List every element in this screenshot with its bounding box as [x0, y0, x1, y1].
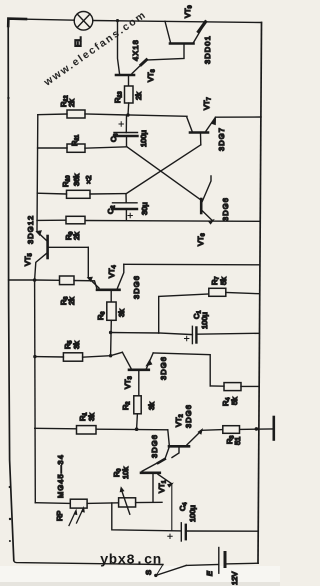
wire R12 left to bus [38, 113, 67, 116]
wire R13 to node [127, 103, 130, 115]
wire switch to battery [186, 564, 219, 567]
transistor VT4 [87, 247, 124, 302]
resistor R11 [67, 144, 85, 152]
resistor R6 [107, 302, 116, 320]
wire: top rail left segment to lamp [8, 19, 74, 20]
resistor R2 [134, 396, 141, 414]
transistor VT6 [201, 176, 214, 224]
svg-text:3DG6: 3DG6 [159, 356, 168, 380]
resistor R12 [67, 110, 85, 118]
node R6/C1 wire [109, 331, 112, 334]
node top rail junction [116, 19, 119, 22]
photoresistor RP [70, 499, 87, 508]
edge artifact marks [7, 97, 11, 542]
wire R4 leads [210, 385, 258, 388]
svg-text:5k: 5k [230, 397, 239, 405]
resistor R4 [224, 383, 241, 391]
wire collector rail y264 [124, 263, 259, 266]
transistor VT8 [116, 21, 147, 87]
transistor VT9 [146, 21, 206, 60]
wire down to C4 rail [112, 503, 182, 531]
ground bar [272, 417, 275, 440]
svg-text:EL: EL [73, 36, 83, 47]
wire R8 to VT4 [74, 281, 97, 290]
svg-text:51: 51 [233, 437, 242, 445]
transistor VT7 [187, 117, 216, 145]
wire R5 to VT3 [83, 352, 123, 357]
wire R2 bottom [136, 414, 139, 429]
node R2 rail junction [135, 427, 139, 431]
wire node to VT7 collector [128, 115, 187, 116]
svg-text:3DG6: 3DG6 [184, 404, 193, 428]
svg-text:100μ: 100μ [200, 312, 209, 329]
resistor R5 [63, 353, 82, 361]
node rail/frame junction [255, 427, 259, 431]
node R6 lead junction [109, 354, 112, 357]
wire cross-coupling diag1 [127, 147, 202, 201]
svg-text:S: S [144, 570, 153, 575]
svg-text:100μ: 100μ [139, 130, 148, 147]
wire R11 leads [38, 147, 127, 148]
wire: right frame rail [258, 23, 262, 564]
potentiometer R0 [119, 498, 136, 507]
wire R0 right [136, 501, 162, 503]
svg-text:3k: 3k [72, 341, 81, 349]
frame corner blob [8, 19, 26, 26]
wire VT3 emitter to R4 riser [153, 353, 210, 386]
transistor VT1 [141, 447, 173, 503]
wire R7 riser [159, 294, 209, 333]
capacitor C4 [168, 523, 258, 541]
svg-text:3DG7: 3DG7 [217, 127, 226, 151]
svg-text:3k: 3k [87, 413, 96, 421]
svg-text:36k: 36k [72, 174, 81, 186]
transistor VT5 [35, 231, 89, 281]
node C3/R12 junction [126, 113, 129, 116]
switch S [154, 574, 157, 577]
svg-text:×2: ×2 [84, 175, 93, 184]
wire cross-coupling diag2 [126, 145, 201, 194]
wire emitter rail y220 [37, 220, 259, 221]
wire bus to RP [35, 502, 70, 505]
transistor VT2 [168, 429, 203, 458]
svg-text:2k: 2k [67, 297, 76, 305]
resistor R3 [223, 426, 240, 434]
wire ground rail y429 left [35, 428, 168, 430]
wire R7 to frame [226, 293, 259, 294]
svg-text:RP: RP [55, 511, 64, 521]
svg-text:3DG6: 3DG6 [221, 197, 230, 221]
wire: left bus vertical [36, 115, 39, 232]
wire: top rail right of lamp [93, 21, 262, 23]
resistor R13 [125, 86, 134, 103]
resistor R7 [209, 288, 226, 296]
wire rail right portion [202, 429, 273, 430]
battery E 12V [219, 548, 258, 574]
wire: bottom rail [14, 561, 163, 565]
svg-text:ybx8.cn: ybx8.cn [100, 553, 162, 569]
svg-text:5k: 5k [219, 277, 228, 285]
svg-text:10k: 10k [121, 467, 130, 479]
light arrows RP [69, 507, 85, 526]
svg-text:3DD01: 3DD01 [203, 35, 212, 64]
capacitor C1 [159, 326, 260, 343]
capacitor C2 [113, 194, 138, 221]
resistor R10 [67, 190, 91, 198]
capacitor C3 [114, 115, 138, 146]
svg-text:30μ: 30μ [140, 202, 149, 215]
wire R12 right to node [85, 114, 128, 115]
transistor VT3 [122, 352, 153, 396]
svg-text:3DG6: 3DG6 [150, 434, 159, 458]
node R5 bus junction [33, 355, 36, 358]
svg-text:3k: 3k [117, 309, 126, 317]
svg-text:3DG12: 3DG12 [26, 215, 35, 244]
wire: left mid bus vertical [34, 280, 37, 503]
svg-text:2k: 2k [67, 99, 76, 107]
lamp EL [74, 11, 93, 30]
wire frame to node to R8 [9, 279, 60, 281]
wire R5 left lead [35, 356, 64, 358]
resistor R9 [66, 216, 85, 224]
svg-text:12V: 12V [230, 572, 239, 585]
wire R6 bottom lead [110, 320, 113, 355]
svg-text:2k: 2k [134, 92, 143, 100]
resistor R1 [77, 426, 97, 434]
wire RP to R0 [87, 502, 119, 505]
resistor R8 [60, 276, 75, 285]
wire R10 leads [37, 192, 126, 195]
svg-text:3DG6: 3DG6 [132, 275, 141, 299]
svg-text:2k: 2k [72, 232, 81, 240]
wire to C1 and R7 [111, 332, 159, 335]
svg-text:100μ: 100μ [188, 505, 197, 522]
wire VT7 emitter to frame [216, 116, 262, 118]
svg-text:3k: 3k [147, 402, 156, 410]
wire VT1 emitter down [171, 484, 173, 531]
wire: left frame rail [8, 19, 14, 561]
node VT5 collector [33, 278, 37, 282]
svg-text:MG45—34: MG45—34 [56, 454, 65, 498]
svg-text:4X18: 4X18 [131, 39, 140, 61]
